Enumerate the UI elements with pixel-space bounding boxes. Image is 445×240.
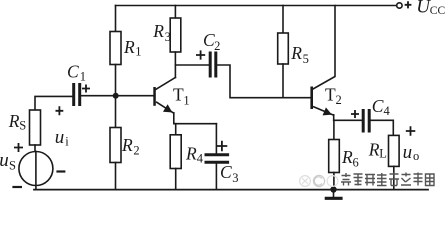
svg-text:CC: CC	[430, 5, 445, 17]
wire node A to R2	[115, 96, 117, 128]
wire R3 branch from rail	[174, 6, 176, 19]
minus sign uS bottom	[12, 186, 22, 188]
wire ground rail	[34, 189, 428, 191]
capacitor C4	[363, 111, 369, 132]
svg-text:u: u	[0, 150, 9, 171]
minus sign uS right	[56, 170, 65, 172]
ground junction dot	[330, 186, 336, 192]
terminal +UCC circle	[397, 3, 402, 8]
svg-text:T: T	[325, 85, 336, 105]
svg-text:2: 2	[336, 93, 342, 107]
svg-text:R: R	[185, 144, 197, 164]
wire C3 to ground rail	[215, 164, 217, 190]
resistor R6	[329, 140, 340, 173]
plus sign C1	[82, 85, 90, 93]
svg-text:2: 2	[214, 39, 220, 53]
svg-text:C: C	[67, 62, 79, 82]
node A junction dot	[113, 93, 119, 99]
svg-text:S: S	[9, 159, 16, 173]
wire R6 to ground node	[333, 173, 335, 190]
svg-text:4: 4	[197, 152, 204, 166]
transistor T2 collector	[313, 6, 335, 90]
capacitor C1	[74, 85, 80, 105]
wire top rail	[116, 5, 397, 7]
svg-text:R: R	[152, 21, 164, 41]
wire through source	[35, 152, 37, 190]
ground stub	[333, 190, 335, 198]
svg-text:2: 2	[133, 144, 139, 158]
svg-text:5: 5	[303, 52, 309, 66]
svg-text:C: C	[372, 96, 384, 116]
wire R4 to ground rail	[175, 169, 177, 190]
plus sign C3	[217, 141, 228, 151]
resistor R3	[170, 18, 181, 52]
transistor T1 emitter diagonal with arrow	[156, 102, 174, 113]
resistor R5	[278, 33, 289, 64]
capacitor C2	[210, 53, 216, 76]
wire RL to ground rail	[393, 166, 395, 189]
svg-text:L: L	[379, 147, 387, 161]
transistor T1 collector diagonal	[156, 78, 175, 90]
wire C1 to T1 base	[81, 95, 153, 97]
resistor R2	[110, 128, 121, 163]
svg-text:S: S	[19, 119, 26, 133]
wire C4 to RL	[371, 120, 394, 135]
plus sign C2	[196, 50, 205, 59]
svg-text:u: u	[403, 142, 413, 163]
svg-text:1: 1	[135, 45, 141, 59]
svg-text:6: 6	[353, 156, 359, 170]
wire to R4	[175, 124, 177, 135]
svg-text:o: o	[413, 149, 419, 163]
wire R1 to node A	[115, 65, 117, 96]
wire emitter node to R4 and C3	[175, 123, 217, 125]
transistor T1 emitter wire	[173, 113, 175, 124]
wire R5 to T2 base wire	[282, 64, 284, 98]
svg-text:R: R	[368, 140, 380, 160]
transistor T2 emitter diagonal with arrow	[313, 107, 334, 116]
transistor T2 base bar	[310, 87, 313, 110]
wire to C3	[215, 124, 217, 154]
svg-text:T: T	[173, 85, 184, 105]
wire junction to C2	[175, 64, 208, 66]
wire R5 branch from rail	[282, 6, 284, 34]
wire R1 branch from rail	[115, 6, 117, 32]
wire input source to C1	[35, 96, 72, 110]
resistor R1	[110, 32, 121, 65]
source uS circle	[19, 152, 53, 186]
plus sign C4	[351, 110, 359, 118]
wire R3 to T1 collector junction	[174, 52, 176, 78]
resistor RL	[389, 135, 400, 166]
wire to R6	[333, 120, 335, 139]
svg-text:4: 4	[384, 104, 391, 118]
svg-text:i: i	[65, 135, 69, 149]
svg-text:R: R	[123, 37, 135, 57]
wire RS to source circle	[34, 145, 36, 152]
svg-text:R: R	[121, 135, 133, 155]
svg-text:R: R	[341, 147, 353, 167]
watermark text glyphs	[341, 173, 434, 186]
resistor R4	[170, 135, 181, 169]
transistor T2 emitter vertical	[333, 115, 335, 121]
svg-text:u: u	[55, 127, 65, 148]
svg-text:1: 1	[80, 70, 86, 84]
transistor T1 base bar	[153, 87, 156, 106]
plus sign uS	[14, 143, 23, 152]
wire C2 to T2 base	[217, 65, 310, 98]
resistor RS	[30, 110, 41, 145]
svg-text:C: C	[220, 162, 232, 182]
wire T2 emitter to C4	[334, 119, 362, 121]
watermark circle marks	[300, 175, 338, 186]
plus sign UCC	[405, 1, 412, 8]
capacitor C3	[206, 155, 228, 163]
plus sign ui	[56, 106, 64, 115]
svg-text:3: 3	[165, 30, 171, 44]
plus sign uo	[406, 126, 416, 135]
svg-text:1: 1	[183, 94, 189, 108]
svg-text:3: 3	[232, 171, 238, 185]
svg-text:R: R	[8, 111, 20, 131]
ground bar	[326, 197, 341, 200]
wire R2 to ground rail	[115, 163, 117, 190]
svg-text:R: R	[290, 43, 302, 63]
